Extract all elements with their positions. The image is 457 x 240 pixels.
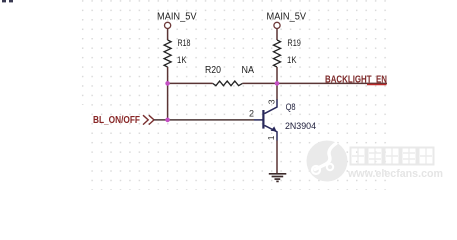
wire R18 to BL junction (167, 67, 169, 120)
svg-text:www.elecfans.com: www.elecfans.com (347, 168, 443, 180)
red underline under _EN (367, 84, 387, 86)
watermark CJK text blocks (351, 148, 434, 165)
grid dot field lower (91, 105, 390, 190)
svg-text:R19: R19 (287, 38, 301, 49)
base pin (254, 119, 263, 121)
junction dot BL (165, 118, 170, 123)
wire R19 down to collector (276, 67, 278, 100)
resistor R19 zigzag (274, 40, 281, 67)
emitter pin (265, 125, 278, 140)
svg-text:3: 3 (266, 99, 276, 104)
emitter arrow (271, 126, 277, 131)
svg-text:1K: 1K (287, 55, 297, 66)
top edge cut marks (2, 0, 6, 2)
wire emitter to ground (276, 141, 278, 174)
ground symbol (269, 174, 287, 182)
svg-text:1K: 1K (177, 55, 187, 66)
wire R20 to right junction and BACKLIGHT_EN (242, 82, 387, 84)
svg-text:MAIN_5V: MAIN_5V (267, 11, 307, 22)
wire horizontal row: junction to R20 (167, 82, 213, 84)
svg-text:MAIN_5V: MAIN_5V (157, 11, 197, 22)
wire BL_ON/OFF to base (154, 119, 254, 121)
junction dot right-top (275, 81, 280, 86)
svg-text:1: 1 (266, 135, 276, 140)
power port circle (left) (165, 22, 171, 28)
watermark logo circle (307, 141, 348, 182)
resistor R18 zigzag (164, 40, 171, 67)
power port circle (right) (274, 22, 280, 28)
wire power to R18 (167, 29, 169, 40)
svg-text:R18: R18 (178, 38, 191, 49)
resistor R20 zigzag (horizontal) (213, 81, 243, 86)
svg-text:R20: R20 (205, 65, 221, 76)
svg-text:2: 2 (249, 108, 254, 118)
base bar (262, 110, 264, 129)
grid dot field upper (77, 0, 390, 105)
svg-text:BL_ON/OFF: BL_ON/OFF (93, 115, 140, 126)
junction dot left-top (165, 81, 170, 86)
svg-text:2N3904: 2N3904 (285, 121, 316, 132)
svg-text:Q8: Q8 (286, 102, 296, 113)
collector pin (265, 100, 278, 114)
svg-text:BACKLIGHT_EN: BACKLIGHT_EN (325, 74, 387, 85)
transistor Q8 (254, 100, 277, 141)
wire power to R19 (276, 29, 278, 40)
svg-text:NA: NA (242, 65, 255, 76)
port chevrons (143, 115, 154, 124)
